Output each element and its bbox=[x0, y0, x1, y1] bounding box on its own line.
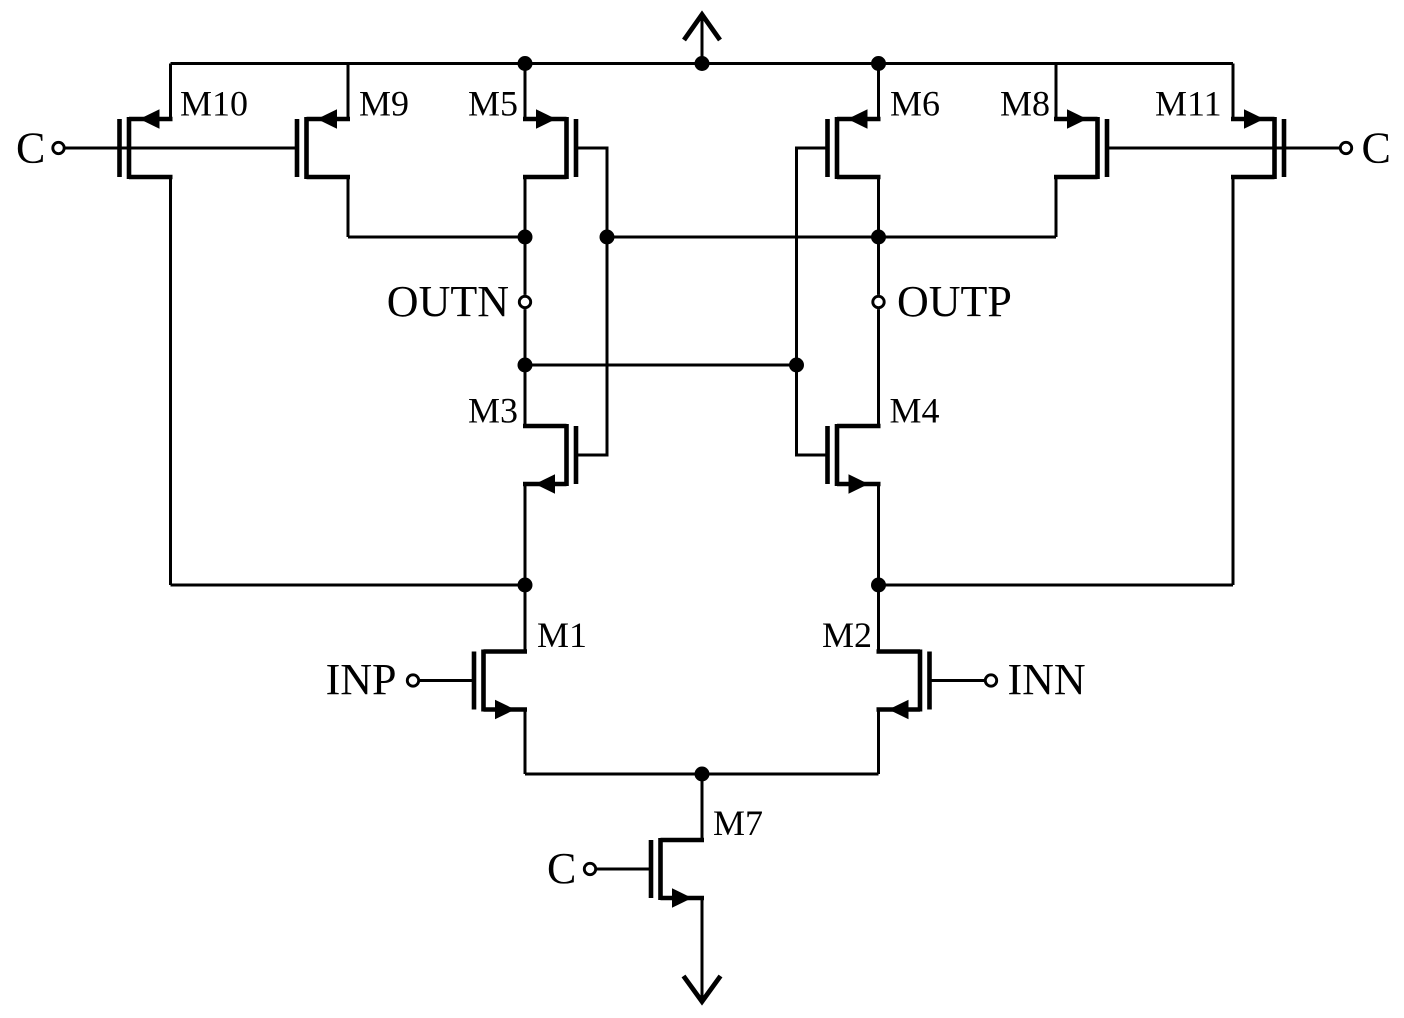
terminal OUTN bbox=[519, 296, 530, 307]
terminal INN bbox=[985, 675, 996, 686]
svg-text:M9: M9 bbox=[359, 84, 409, 124]
svg-text:M10: M10 bbox=[180, 84, 248, 124]
wire M2 drain up to node B bbox=[877, 585, 880, 652]
junction tail node / M7 drain bbox=[695, 767, 710, 782]
wire cross-couple OUTN to M6/M4 gates bbox=[525, 364, 797, 367]
junction M6 gate / cross wire bbox=[789, 358, 804, 373]
svg-text:M8: M8 bbox=[1000, 84, 1050, 124]
wire OUTN vertical (above terminal) bbox=[524, 237, 527, 295]
svg-text:M6: M6 bbox=[890, 84, 940, 124]
wire M6 gate to M4 gate (node OUTN side) bbox=[797, 148, 828, 455]
transistor M10 (PMOS) bbox=[120, 109, 173, 179]
transistor M7 (NMOS) bbox=[651, 838, 704, 908]
junction rail / M6 source bbox=[871, 56, 886, 71]
junction M5 gate / OUTP wire bbox=[600, 230, 615, 245]
svg-text:M4: M4 bbox=[890, 391, 940, 431]
wire M10 source to rail bbox=[169, 64, 172, 120]
wire M8 source to rail bbox=[1055, 64, 1058, 120]
svg-text:M1: M1 bbox=[537, 615, 587, 655]
wire M11 source to rail bbox=[1232, 64, 1235, 120]
wire OUTP vertical (above terminal) bbox=[877, 237, 880, 295]
junction rail / M5 source bbox=[518, 56, 533, 71]
ground arrow (current sink) bbox=[701, 898, 704, 1000]
junction node B (M11/M4/M2) bbox=[871, 578, 886, 593]
wire M7 drain up bbox=[701, 774, 704, 840]
wire M6 drain down bbox=[877, 177, 880, 237]
transistor M8 (PMOS) bbox=[1054, 109, 1107, 179]
svg-text:M7: M7 bbox=[713, 803, 763, 843]
svg-text:M11: M11 bbox=[1155, 84, 1222, 124]
wire M5 source to rail bbox=[524, 64, 527, 120]
wire M2 source down bbox=[877, 710, 880, 775]
terminal C (left) bbox=[53, 142, 64, 153]
terminal OUTP bbox=[873, 296, 884, 307]
wire M9 drain to node OUTN bbox=[348, 236, 525, 239]
wire M9 drain down bbox=[347, 177, 350, 237]
wire tail node bbox=[525, 773, 879, 776]
svg-text:C: C bbox=[16, 124, 45, 173]
terminal C (right) bbox=[1340, 142, 1351, 153]
transistor M11 (PMOS) bbox=[1231, 109, 1284, 179]
wire INP to M1 gate bbox=[419, 679, 474, 682]
wire M6 source to rail bbox=[877, 64, 880, 120]
transistor M1 (NMOS) bbox=[474, 650, 527, 720]
wire M4 source down to node B bbox=[877, 484, 880, 585]
wire M8 drain to node OUTP bbox=[607, 236, 1056, 239]
wire M10 drain to node A bbox=[171, 584, 526, 587]
transistor M2 (NMOS) bbox=[877, 650, 930, 720]
svg-text:M5: M5 bbox=[468, 84, 518, 124]
transistor M6 (PMOS) bbox=[828, 109, 881, 179]
wire M11 drain down bbox=[1232, 177, 1235, 585]
svg-text:OUTP: OUTP bbox=[897, 277, 1012, 326]
junction OUTN node top bbox=[518, 230, 533, 245]
svg-text:M3: M3 bbox=[468, 391, 518, 431]
svg-text:INP: INP bbox=[326, 655, 397, 704]
wire M8 drain down bbox=[1055, 177, 1058, 237]
svg-text:INN: INN bbox=[1008, 655, 1086, 704]
wire M1 drain up to node A bbox=[524, 585, 527, 652]
wire OUTP vertical (below terminal) bbox=[877, 309, 880, 426]
wire M1 source down bbox=[524, 710, 527, 775]
junction OUTN / cross wire bbox=[518, 358, 533, 373]
wire M11 drain to node B bbox=[879, 584, 1234, 587]
transistor M5 (PMOS) bbox=[523, 109, 576, 179]
wire M3 source down to node A bbox=[524, 484, 527, 585]
transistor M3 (NMOS) bbox=[523, 424, 576, 494]
wire C input to M7 gate bbox=[596, 868, 651, 871]
transistor M9 (PMOS) bbox=[297, 109, 350, 179]
transistor M4 (NMOS) bbox=[828, 424, 881, 494]
wire M9 source to rail bbox=[347, 64, 350, 120]
wire C input to M10 and M9 gates bbox=[64, 147, 297, 150]
svg-text:C: C bbox=[547, 844, 576, 893]
power supply VDD arrow bbox=[701, 17, 704, 64]
wire OUTN vertical (below terminal) bbox=[524, 309, 527, 426]
wire INN to M2 gate bbox=[930, 679, 986, 682]
junction OUTP node top bbox=[871, 230, 886, 245]
terminal C (bottom) bbox=[584, 863, 595, 874]
svg-text:OUTN: OUTN bbox=[387, 277, 509, 326]
wire M10 drain down bbox=[169, 177, 172, 585]
wire VDD rail bbox=[171, 62, 1234, 65]
svg-text:C: C bbox=[1362, 124, 1391, 173]
junction rail / VDD bbox=[695, 56, 710, 71]
junction node A (M10/M3/M1) bbox=[518, 578, 533, 593]
wire C input to M8 and M11 gates bbox=[1107, 147, 1340, 150]
wire M5 gate to M3 gate (node OUTP side) bbox=[576, 148, 607, 455]
wire M5 drain down bbox=[524, 177, 527, 237]
svg-text:M2: M2 bbox=[822, 615, 872, 655]
terminal INP bbox=[407, 675, 418, 686]
